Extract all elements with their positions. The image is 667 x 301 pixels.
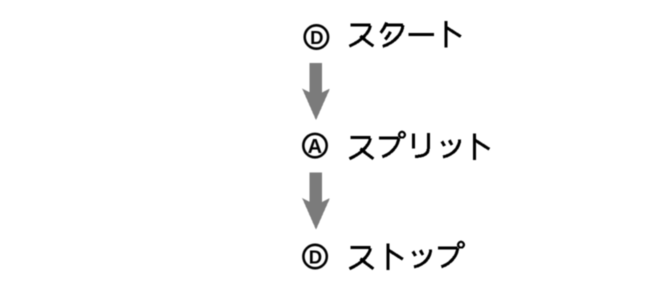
svg-text:A: A: [308, 136, 322, 158]
arrow 2 (down arrow between split and stop): [302, 173, 330, 230]
text スプリット (Split): [349, 132, 489, 160]
circled A symbol (row 2): [303, 134, 326, 158]
svg-text:D: D: [309, 246, 322, 267]
arrow 1 (down arrow between start and split): [302, 63, 330, 120]
circled D symbol (row 1): [305, 25, 328, 48]
text スタート (Start): [349, 21, 460, 47]
text ストップ (Stop): [349, 242, 464, 270]
svg-text:D: D: [310, 27, 323, 48]
circled D symbol (row 3): [303, 245, 326, 268]
